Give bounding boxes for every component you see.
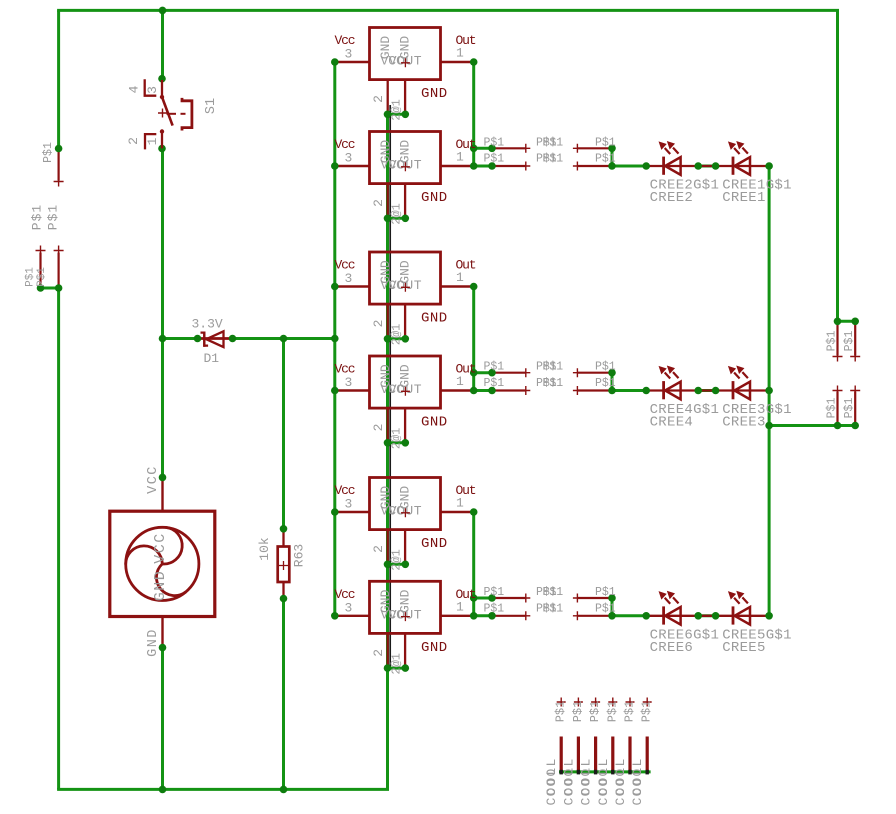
regulator 6 pin stubs <box>335 615 370 617</box>
wire D1 row to fan <box>161 339 164 478</box>
svg-text:3: 3 <box>345 47 353 62</box>
svg-text:2: 2 <box>371 545 386 553</box>
black overlay line on GND rail <box>389 105 391 668</box>
wire left rail lower <box>57 288 60 789</box>
bottom connector labels <box>544 701 654 806</box>
regulator block 3 <box>370 252 441 304</box>
svg-text:P$1: P$1 <box>484 136 505 149</box>
svg-text:P$1: P$1 <box>30 204 45 230</box>
D1 through line <box>198 337 233 340</box>
svg-text:1: 1 <box>456 374 464 389</box>
svg-text:P$1: P$1 <box>595 586 616 599</box>
fan labels <box>146 465 169 657</box>
svg-text:1: 1 <box>456 496 464 511</box>
svg-text:CREE2: CREE2 <box>650 190 694 206</box>
svg-text:P$1: P$1 <box>595 377 616 390</box>
svg-text:P$1: P$1 <box>42 142 55 163</box>
svg-text:P$1: P$1 <box>484 602 505 615</box>
svg-text:CREE1: CREE1 <box>722 190 766 206</box>
regulator block 5 <box>370 478 441 530</box>
svg-text:S1: S1 <box>204 98 219 114</box>
svg-text:1: 1 <box>456 599 464 614</box>
svg-text:P$1: P$1 <box>543 586 564 599</box>
wire fan gnd to bottom rail <box>161 648 164 790</box>
right lower pins P$1 <box>836 392 838 426</box>
regulator 4 labels <box>335 362 476 450</box>
regulator 4 pin stubs <box>335 389 370 391</box>
svg-text:P$1: P$1 <box>623 701 637 723</box>
LED CREE2 <box>660 142 681 175</box>
connector pin pair row 3 <box>492 597 526 599</box>
svg-text:D1: D1 <box>204 351 220 366</box>
LED row 2 through line <box>646 389 769 391</box>
wire left rail upper <box>57 10 60 148</box>
svg-text:GND: GND <box>146 628 161 657</box>
svg-text:3.3V: 3.3V <box>192 317 223 332</box>
svg-text:R63: R63 <box>292 544 307 567</box>
svg-text:P$1: P$1 <box>543 153 564 166</box>
svg-text:P$1: P$1 <box>543 136 564 149</box>
wire R63 bottom <box>282 599 285 790</box>
wire right upper pin link <box>838 320 856 323</box>
wire right LED rail <box>768 166 771 616</box>
svg-text:P$1: P$1 <box>595 136 616 149</box>
wire cluster verticals row 3 <box>472 598 475 616</box>
wire switch to D1 row <box>161 149 164 339</box>
svg-text:1: 1 <box>456 150 464 165</box>
left top pin P$1 <box>57 150 59 181</box>
diode D1 zener <box>201 331 224 347</box>
R63 stubs <box>282 529 284 547</box>
svg-text:COOL: COOL <box>613 765 628 805</box>
svg-text:VCC: VCC <box>146 465 161 494</box>
svg-text:P$1: P$1 <box>543 377 564 390</box>
svg-text:3: 3 <box>345 375 353 390</box>
svg-text:COOL: COOL <box>579 765 594 805</box>
LED labels row 2 <box>650 402 792 431</box>
svg-text:GND: GND <box>421 86 448 102</box>
svg-text:2@1: 2@1 <box>390 653 404 675</box>
svg-text:GND: GND <box>421 311 448 327</box>
svg-text:P$1: P$1 <box>825 331 838 352</box>
wire right top rail <box>836 10 839 321</box>
svg-text:2@1: 2@1 <box>390 99 404 121</box>
regulator block 4 <box>370 356 441 408</box>
wire LED mid link row 2 <box>698 389 715 392</box>
regulator 3 pin stubs <box>335 285 370 287</box>
svg-text:10k: 10k <box>257 537 272 561</box>
regulator block 2 <box>370 132 441 184</box>
regulator 3 labels <box>335 258 476 346</box>
regulator 6 labels <box>335 587 476 675</box>
svg-text:P$1: P$1 <box>543 361 564 374</box>
wire top rail <box>57 9 839 12</box>
svg-text:CREE6: CREE6 <box>650 640 694 656</box>
regulator 5 labels <box>335 483 476 571</box>
left lower pins P$1 <box>39 253 41 289</box>
svg-text:COOL: COOL <box>561 765 576 805</box>
svg-text:2@1: 2@1 <box>390 203 404 225</box>
wire R63 top <box>282 339 285 529</box>
cluster pin labels row 2 <box>484 361 616 390</box>
wire right lower link <box>769 424 855 427</box>
svg-text:P$1: P$1 <box>595 361 616 374</box>
svg-text:P$1: P$1 <box>484 377 505 390</box>
svg-text:CREE3: CREE3 <box>722 415 766 431</box>
resistor R63 labels <box>257 537 307 567</box>
LED row 3 through line <box>646 615 769 617</box>
regulator 2 pin stubs <box>335 165 370 167</box>
svg-text:2@1: 2@1 <box>390 428 404 450</box>
connector pin pair row 2 <box>492 372 526 374</box>
LED labels row 3 <box>650 627 792 656</box>
svg-text:P$1: P$1 <box>543 602 564 615</box>
wire cluster verticals row 2 <box>472 373 475 391</box>
svg-text:P$1: P$1 <box>484 153 505 166</box>
fan motor symbol <box>110 511 215 616</box>
wire cluster verticals row 1 <box>472 148 475 166</box>
wire LED mid link row 1 <box>698 165 715 168</box>
svg-text:P$1: P$1 <box>25 267 37 287</box>
regulator block 6 <box>370 581 441 633</box>
svg-text:P$1: P$1 <box>825 398 838 419</box>
diode D1 labels <box>192 317 223 367</box>
svg-text:GND: GND <box>421 415 448 431</box>
wire out3 drop <box>472 287 475 373</box>
wire gnd dot link row 3 <box>388 337 406 340</box>
svg-text:P$1: P$1 <box>843 331 856 352</box>
LED CREE6 <box>660 592 681 625</box>
svg-text:P$1: P$1 <box>571 701 585 723</box>
svg-text:P$1: P$1 <box>484 361 505 374</box>
switch S1 <box>145 79 192 149</box>
svg-text:GND: GND <box>421 190 448 206</box>
svg-text:CREE4: CREE4 <box>650 415 694 431</box>
svg-text:P$1: P$1 <box>843 398 856 419</box>
svg-text:P$1: P$1 <box>605 701 619 723</box>
right upper pins P$1 <box>836 321 838 355</box>
regulator 5 pin stubs <box>335 511 370 513</box>
LED CREE3 <box>729 367 750 400</box>
LED row 1 through line <box>646 165 769 167</box>
cluster pin labels row 1 <box>484 136 616 165</box>
wire gnd dot link row 2 <box>388 217 406 220</box>
LED CREE5 <box>729 592 750 625</box>
svg-text:GND: GND <box>152 570 169 602</box>
svg-text:3: 3 <box>345 151 353 166</box>
regulator 1 pin stubs <box>335 61 370 63</box>
wire out5 drop <box>472 512 475 598</box>
svg-text:3: 3 <box>345 600 353 615</box>
svg-text:P$1: P$1 <box>595 602 616 615</box>
left pin labels <box>25 142 61 287</box>
svg-text:4: 4 <box>127 85 142 93</box>
regulator 1 labels <box>335 33 476 121</box>
svg-text:3: 3 <box>345 497 353 512</box>
svg-text:1: 1 <box>456 270 464 285</box>
LED CREE1 <box>729 142 750 175</box>
wire left pin pair link <box>41 287 59 290</box>
svg-text:1: 1 <box>145 137 160 145</box>
svg-text:2: 2 <box>371 95 386 103</box>
wire out1 drop <box>472 62 475 148</box>
LED CREE4 <box>660 367 681 400</box>
LED labels row 1 <box>650 178 792 207</box>
switch S1 labels <box>126 85 219 145</box>
wire GND rail <box>386 114 389 789</box>
svg-text:COOL: COOL <box>544 765 559 805</box>
wire D1 horizontal row left <box>163 337 201 340</box>
wire switch feed <box>161 10 164 78</box>
svg-text:P$1: P$1 <box>46 204 61 230</box>
svg-text:COOL: COOL <box>630 765 645 805</box>
wire bottom rail <box>57 788 389 791</box>
svg-text:P$1: P$1 <box>484 586 505 599</box>
svg-text:3: 3 <box>345 271 353 286</box>
svg-text:VCC: VCC <box>152 532 169 564</box>
svg-text:P$1: P$1 <box>36 267 48 287</box>
svg-text:COOL: COOL <box>596 765 611 805</box>
connector pin pair row 1 <box>492 147 526 149</box>
svg-text:GND: GND <box>421 536 448 552</box>
resistor R63 <box>278 547 290 583</box>
bottom connector COOL pins <box>557 698 652 775</box>
wire bottom connector bus <box>559 770 651 773</box>
svg-text:2@1: 2@1 <box>390 549 404 571</box>
cluster pin labels row 3 <box>484 586 616 615</box>
right pin labels <box>825 331 856 419</box>
wire gnd dot link row 1 <box>388 113 406 116</box>
wire gnd dot link row 5 <box>388 563 406 566</box>
svg-text:CREE5: CREE5 <box>722 640 766 656</box>
svg-text:P$1: P$1 <box>640 701 654 723</box>
svg-text:P$1: P$1 <box>588 701 602 723</box>
svg-text:2: 2 <box>371 199 386 207</box>
svg-text:2: 2 <box>126 137 141 145</box>
wire gnd dot link row 6 <box>388 667 406 670</box>
svg-text:GND: GND <box>421 640 448 656</box>
svg-text:2: 2 <box>371 320 386 328</box>
wire Vcc rail <box>333 62 336 616</box>
fan stubs <box>161 477 163 511</box>
junction dots <box>159 7 167 15</box>
wire LED mid link row 3 <box>698 614 715 617</box>
svg-text:1: 1 <box>456 46 464 61</box>
svg-text:P$1: P$1 <box>554 701 568 723</box>
svg-text:2: 2 <box>371 424 386 432</box>
svg-text:2@1: 2@1 <box>390 324 404 346</box>
wire D1 horizontal row right <box>231 337 335 340</box>
regulator block 1 <box>370 28 441 80</box>
svg-text:P$1: P$1 <box>595 153 616 166</box>
wire gnd dot link row 4 <box>388 441 406 444</box>
regulator 2 labels <box>335 137 476 225</box>
svg-text:2: 2 <box>371 649 386 657</box>
svg-text:3: 3 <box>145 86 160 94</box>
